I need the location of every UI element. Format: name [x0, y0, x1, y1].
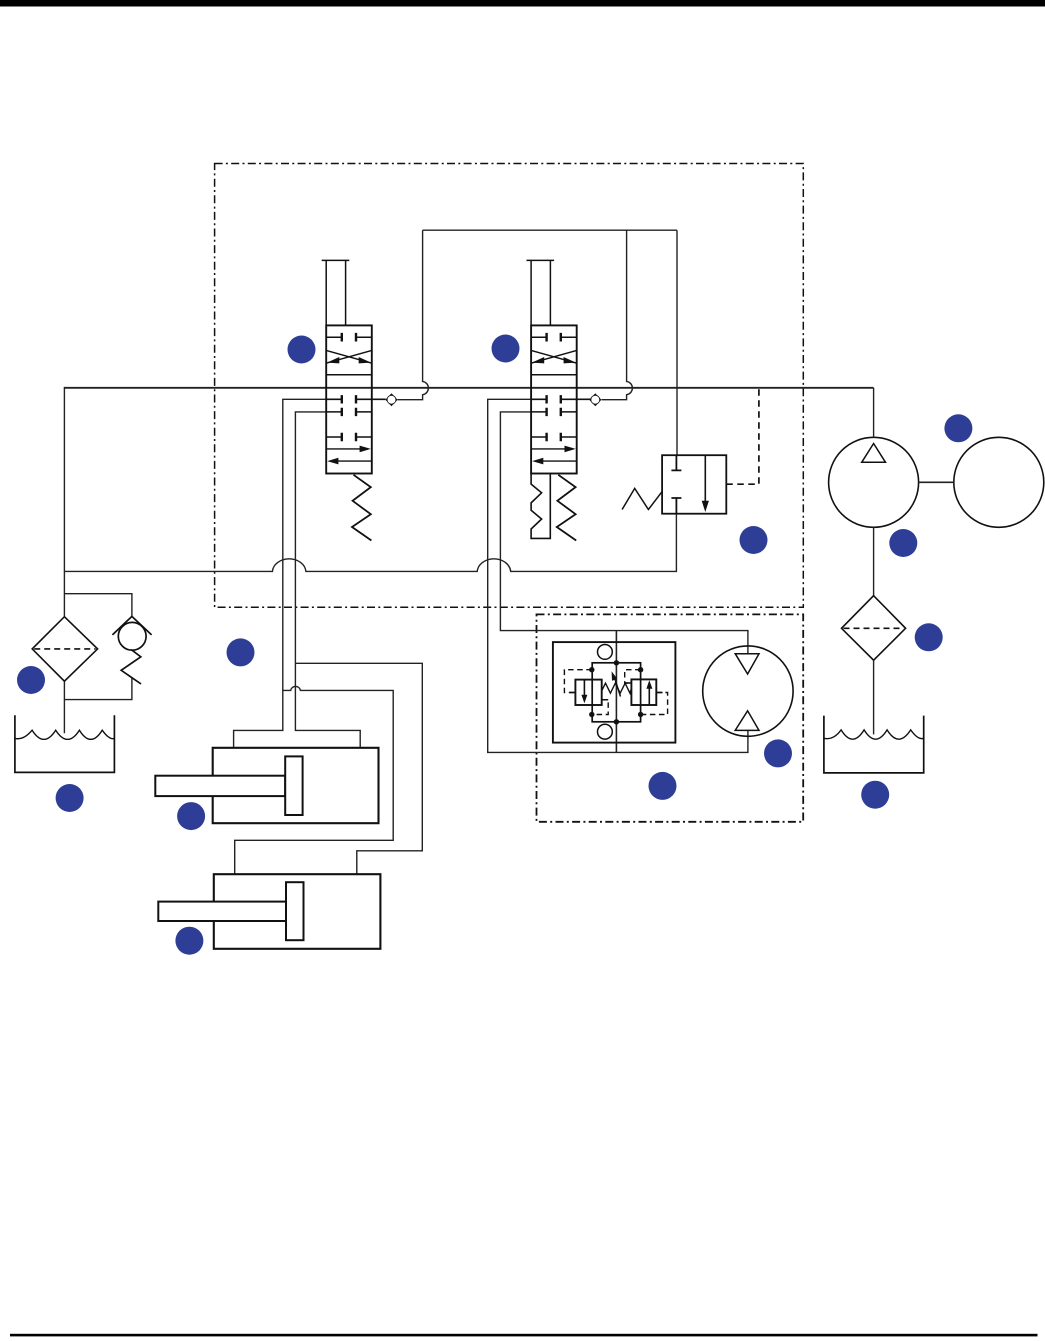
directional control valve V1: [322, 260, 386, 540]
wire: V1 port B branch to cylinder C2 rod end: [295, 663, 422, 874]
unloading valve (2-way, spring offset): [622, 455, 726, 514]
V2 crossed-flow arrows: [531, 350, 577, 363]
reservoir fluid level (left): [15, 730, 115, 739]
cylinder C1 rod: [155, 776, 285, 796]
compensator valve port stubs: [570, 683, 663, 700]
adjustable orifice spring: [602, 683, 632, 693]
page footer rule: [10, 1334, 1038, 1337]
V1 section divider: [326, 374, 372, 376]
flow control cartridge block: [553, 642, 676, 743]
V1 blocked ports row 1: [326, 336, 372, 338]
wire: valve V2 port A line to gear motor bottom: [488, 399, 748, 752]
wire: pump outlet to P line: [873, 388, 875, 438]
callout dot 5 (pump): [889, 529, 917, 557]
cylinder C2 piston: [286, 882, 304, 940]
callout dot 7 (right reservoir): [861, 781, 889, 809]
manifold enclosure box 1 (dash-dot): [215, 164, 804, 608]
reservoir fluid level (right): [824, 730, 924, 739]
callout dot 8 (return filter): [17, 666, 45, 694]
unloading valve spring: [622, 488, 662, 509]
cylinder C2 rod: [158, 902, 286, 921]
callout dot 11 (cylinder C1): [177, 802, 205, 830]
callout dot 6 (suction strainer): [915, 623, 943, 651]
V2 actuator stem: [527, 260, 555, 325]
wire: tank return collector line with crossover hops: [64, 514, 676, 572]
V2 through-flow arrows (bottom position): [531, 448, 566, 450]
V1 body: [326, 325, 372, 473]
cylinder C2 body: [214, 874, 381, 949]
V1 through-flow arrows (bottom position): [326, 448, 361, 450]
wire: flow control main through-line: [615, 631, 617, 753]
wire: strainer to reservoir: [873, 660, 875, 735]
callout dot 12 (cylinder C2): [175, 927, 203, 955]
wire: rail feed down to unloading valve: [676, 230, 678, 455]
bypass check valve spring: [121, 650, 141, 684]
suction strainer (right): [842, 596, 906, 661]
pump-motor shaft: [919, 481, 954, 483]
V1 return spring: [352, 475, 371, 541]
V2 detent boot: [531, 474, 550, 539]
directional control valve V2: [527, 260, 591, 540]
V2 blocked ports row 3 (B/T): [531, 411, 577, 413]
V1 crossed-flow arrows: [326, 350, 372, 363]
unloading valve flow arrow: [704, 455, 706, 502]
adjustment arrow: [614, 676, 621, 697]
V2 blocked ports row 1: [531, 336, 577, 338]
wire: pilot rail above valves: [423, 229, 677, 231]
return filter element (dashed): [34, 648, 95, 650]
V2 pilot port symbol: [589, 393, 601, 406]
wire: left return drop (upper part): [63, 387, 65, 616]
pump outlet direction triangle: [862, 444, 886, 463]
cylinder C1 body: [213, 748, 379, 823]
wire: pressure supply line P (pump to valves): [64, 387, 873, 389]
callout dot 10 (manifold): [227, 638, 255, 666]
bridge junction nodes: [589, 660, 643, 724]
V1 blocked ports row 4: [326, 436, 372, 438]
gear motor top triangle: [735, 654, 759, 674]
wire: valve V2 port B line to gear motor top: [500, 412, 748, 654]
unloading valve pilot line (dashed): [726, 388, 759, 484]
right compensator valve: [631, 679, 656, 705]
page header bar: [0, 0, 1045, 7]
flow control inner bridge: [592, 663, 640, 722]
callout dot 4 (electric motor): [944, 414, 972, 442]
wire: valve V1 port A line to cylinders: [234, 399, 327, 748]
V2 blocked ports row 2 (A/P): [531, 398, 590, 400]
left compensator valve: [575, 680, 601, 705]
V1 actuator stem: [322, 260, 350, 325]
suction strainer element (dashed): [844, 627, 904, 629]
callout dot 14 (gear motor): [764, 739, 792, 767]
V1 blocked ports row 3 (B/T): [326, 411, 372, 413]
manifold enclosure box 2 (dash-dot, flow-control unit): [537, 614, 804, 821]
wire: left return drop (lower part into tank): [63, 681, 65, 734]
wire: V2 pilot line (rail to pilot port, hop over P line): [602, 230, 633, 400]
unloading valve outlet stub: [671, 498, 681, 514]
bypass check valve ball: [118, 622, 146, 650]
unloading valve inlet stub: [671, 455, 681, 470]
wire: filter bypass branch bottom: [64, 678, 131, 700]
hydraulic pump P1: [829, 437, 919, 527]
V2 section divider: [531, 374, 577, 376]
return filter (left): [32, 617, 97, 682]
flow control top port: [598, 645, 613, 660]
V2 body: [531, 325, 577, 473]
callout dot 9 (left reservoir): [56, 784, 84, 812]
wire: V1 pilot line (rail to pilot port, hop over P line): [397, 230, 428, 400]
reservoir (right): [824, 716, 924, 773]
flow control bottom port: [598, 724, 613, 739]
gear motor bottom triangle: [735, 711, 759, 731]
wire: filter bypass branch top: [64, 594, 131, 617]
unloading valve body: [662, 455, 726, 514]
V2 blocked ports row 4: [531, 436, 577, 438]
callout dot 3 (unloading valve): [740, 526, 768, 554]
callout dot 2 (valve V2): [492, 335, 520, 363]
compensator pilot lines (dashed): [564, 670, 591, 693]
gear motor: [703, 646, 793, 736]
wire: valve V1 port B line: [295, 412, 360, 748]
cylinder C1 piston: [285, 756, 302, 815]
V2 return spring: [557, 475, 576, 541]
bypass check valve seat: [112, 616, 151, 635]
electric motor M: [954, 437, 1044, 527]
V1 blocked ports row 2 (A/P): [326, 398, 386, 400]
reservoir (left): [15, 715, 115, 772]
wire: pump suction line: [873, 527, 875, 596]
V1 pilot port symbol: [385, 393, 397, 406]
wire: V1 port A branch to cylinder C2 cap end (with hop): [235, 686, 394, 874]
callout dot 1 (valve V1): [288, 336, 316, 364]
callout dot 13 (flow control): [649, 772, 677, 800]
